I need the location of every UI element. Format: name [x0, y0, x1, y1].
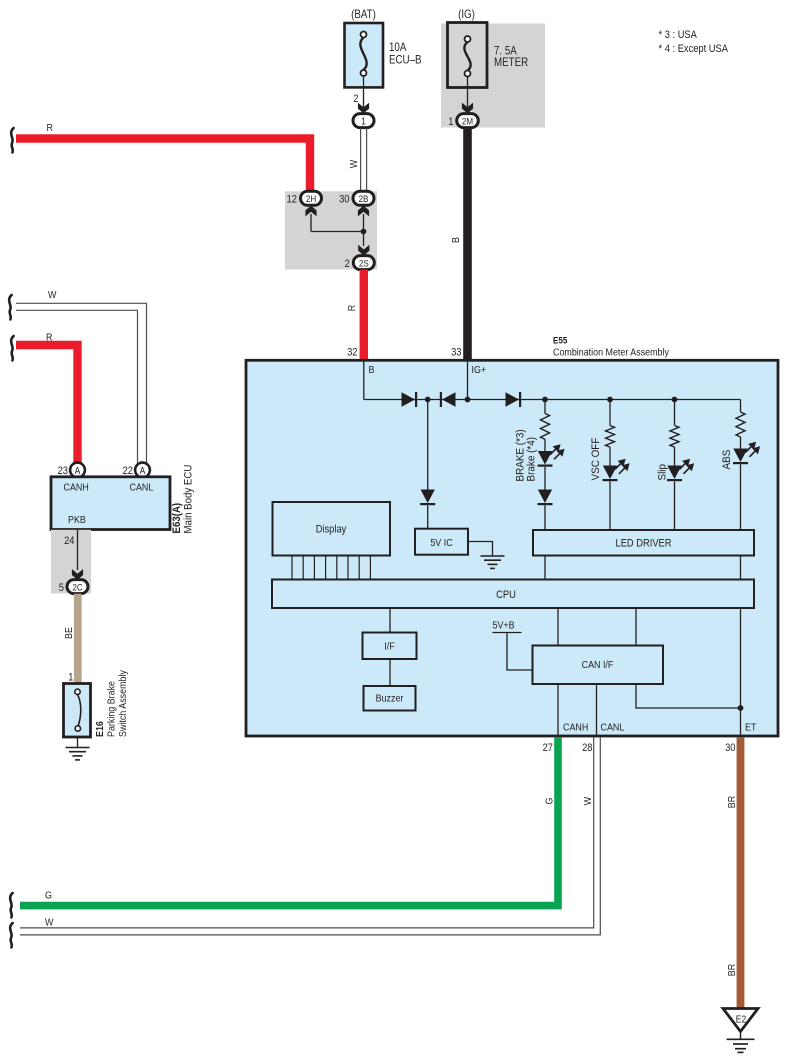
- svg-text:10A: 10A: [389, 41, 407, 54]
- svg-text:1: 1: [361, 116, 366, 128]
- wire: [674, 447, 676, 466]
- svg-text:IG+: IG+: [472, 364, 487, 376]
- junction dot: [672, 397, 678, 403]
- svg-text:27: 27: [543, 742, 554, 754]
- svg-text:W: W: [45, 917, 54, 929]
- svg-text:(IG): (IG): [458, 8, 475, 21]
- ground bars: [727, 1038, 755, 1040]
- wire PKB down: [77, 530, 79, 570]
- svg-text:METER: METER: [494, 56, 528, 69]
- switch blade: [78, 695, 81, 726]
- svg-text:28: 28: [582, 742, 593, 754]
- wire: [674, 400, 676, 426]
- junction dot IG+: [465, 397, 471, 403]
- wire: [609, 400, 611, 426]
- wire 5V+B to CAN I/F: [507, 633, 533, 671]
- svg-text:30: 30: [725, 742, 736, 754]
- node IG+ entry: [467, 360, 469, 399]
- svg-text:2M: 2M: [462, 116, 473, 127]
- junction dot ET: [738, 705, 744, 711]
- svg-text:12: 12: [287, 194, 298, 206]
- break squiggle: [9, 295, 11, 319]
- svg-text:2H: 2H: [306, 193, 316, 204]
- fuse 10A ECU-B box: [345, 23, 384, 87]
- arrow up into 2B: [358, 206, 369, 217]
- E55 box: [246, 360, 778, 736]
- junction dot: [361, 229, 367, 235]
- terminal A pin 23: [70, 463, 85, 478]
- svg-text:G: G: [45, 890, 52, 902]
- wire CANH: [557, 684, 559, 736]
- I/F box: [363, 633, 417, 660]
- svg-text:2S: 2S: [359, 258, 369, 269]
- svg-text:I/F: I/F: [384, 641, 394, 653]
- switch contact top: [75, 689, 80, 694]
- junction dot: [607, 397, 613, 403]
- LED Slip: [667, 459, 694, 480]
- wire: [427, 505, 429, 529]
- svg-text:Combination Meter Assembly: Combination Meter Assembly: [553, 347, 669, 359]
- wire: [544, 467, 546, 490]
- svg-text:1: 1: [448, 116, 453, 128]
- diode D1: [402, 392, 417, 407]
- svg-text:24: 24: [64, 535, 75, 547]
- svg-text:Brake (*4): Brake (*4): [526, 437, 538, 482]
- wire to 2S: [363, 232, 365, 247]
- wire BE: [74, 594, 82, 684]
- ground stem: [740, 1032, 742, 1040]
- svg-text:B: B: [450, 237, 462, 243]
- svg-text:Switch Assembly: Switch Assembly: [117, 670, 129, 737]
- wire: [740, 464, 742, 530]
- svg-text:B: B: [369, 364, 375, 376]
- display bus wires: [291, 556, 293, 580]
- LED VSC OFF: [603, 459, 630, 480]
- diode D4: [538, 490, 553, 505]
- gray junction block: [285, 191, 377, 269]
- CAN I/F box: [533, 646, 664, 685]
- junction dot: [425, 397, 431, 403]
- wire G: [20, 737, 558, 906]
- svg-text:A: A: [140, 465, 146, 476]
- svg-text:A: A: [75, 465, 81, 476]
- wire R: [16, 345, 78, 463]
- svg-text:R: R: [47, 122, 53, 134]
- junction dot: [542, 397, 548, 403]
- wire W (double line): [360, 128, 362, 192]
- svg-text:* 3 : USA: * 3 : USA: [659, 29, 698, 41]
- fuse element: [360, 38, 366, 71]
- svg-text:ECU–B: ECU–B: [389, 54, 422, 67]
- svg-text:Parking Brake: Parking Brake: [106, 681, 118, 737]
- wire from rail: [427, 400, 429, 490]
- connector 2H: [301, 191, 322, 205]
- svg-text:G: G: [544, 798, 556, 805]
- svg-text:BE: BE: [63, 627, 75, 639]
- wire B thick black: [463, 128, 472, 360]
- wire: [544, 505, 546, 530]
- LED BRAKE: [538, 444, 565, 465]
- svg-text:VSC OFF: VSC OFF: [591, 438, 603, 481]
- wire: [740, 437, 742, 449]
- Buzzer box: [364, 686, 416, 711]
- E16 box: [64, 684, 91, 738]
- svg-text:E2: E2: [736, 1014, 746, 1025]
- arrow into 2C: [72, 569, 83, 580]
- break squiggle: [10, 893, 12, 917]
- resistor R1: [541, 413, 550, 439]
- CPU box: [272, 580, 754, 609]
- ground E2 triangle: [723, 1009, 758, 1032]
- diode D3: [506, 392, 521, 407]
- wire to ground: [468, 542, 493, 556]
- svg-text:W: W: [48, 289, 57, 301]
- connector 1: [353, 114, 374, 128]
- svg-text:Buzzer: Buzzer: [376, 693, 404, 705]
- svg-text:W: W: [582, 796, 594, 805]
- svg-text:CANL: CANL: [601, 722, 625, 734]
- wire LED DRIVER to CPU right: [740, 556, 742, 580]
- svg-text:BR: BR: [726, 964, 738, 976]
- svg-text:BRAKE (*3): BRAKE (*3): [515, 429, 527, 481]
- svg-text:CANH: CANH: [64, 482, 89, 494]
- svg-text:CPU: CPU: [496, 589, 516, 601]
- svg-text:2C: 2C: [72, 582, 83, 593]
- arrow into connector 2M: [462, 103, 473, 114]
- supply rail wire: [364, 399, 741, 401]
- gray block: [441, 24, 545, 128]
- svg-text:W: W: [348, 159, 360, 168]
- wire: [609, 481, 611, 530]
- node B entry: [363, 360, 365, 399]
- 5V IC box: [415, 529, 468, 555]
- wire BR: [737, 737, 745, 1009]
- connector 2S: [353, 256, 374, 270]
- resistor R2: [606, 426, 615, 448]
- wire corner: [740, 400, 742, 413]
- terminal A pin 22: [135, 463, 150, 478]
- svg-text:Main Body ECU: Main Body ECU: [183, 465, 195, 534]
- wire to ground: [77, 737, 79, 748]
- wire: [544, 400, 546, 414]
- wire CANL: [596, 684, 598, 736]
- svg-text:ET: ET: [745, 722, 756, 734]
- svg-text:* 4 : Except USA: * 4 : Except USA: [659, 43, 729, 55]
- connector 2M: [457, 114, 479, 128]
- break squiggle: [11, 128, 13, 152]
- wire CPU to CAN I/F left: [557, 608, 559, 646]
- break squiggle: [10, 923, 12, 947]
- wire R: [16, 139, 310, 192]
- svg-text:32: 32: [347, 347, 358, 359]
- E63 box: [51, 477, 170, 530]
- LED DRIVER box: [533, 530, 754, 556]
- wire fuse to connector 1: [363, 76, 365, 107]
- switch contact bottom: [75, 726, 80, 731]
- svg-text:Display: Display: [316, 524, 347, 536]
- svg-text:2B: 2B: [359, 193, 369, 204]
- resistor R4: [736, 412, 745, 437]
- svg-text:ABS: ABS: [722, 450, 734, 470]
- gray block: [51, 530, 91, 594]
- arrow up into 2H: [305, 206, 316, 217]
- svg-text:E16: E16: [94, 721, 106, 737]
- wire CPU to I/F: [389, 608, 391, 633]
- wire CAN I/F to ET: [636, 684, 741, 708]
- break squiggle: [11, 336, 13, 360]
- fuse 7.5A METER box: [448, 23, 488, 88]
- svg-text:5V+B: 5V+B: [493, 620, 515, 632]
- svg-text:(BAT): (BAT): [351, 8, 376, 21]
- wire: [674, 481, 676, 530]
- wire 2H down: [310, 214, 312, 232]
- wire: [544, 439, 546, 451]
- connector 2B: [353, 191, 374, 205]
- connector 2C: [67, 580, 88, 594]
- ground: [66, 748, 90, 760]
- wire I/F to Buzzer: [389, 659, 391, 686]
- wire 2B down: [363, 214, 365, 232]
- svg-text:2: 2: [345, 258, 350, 270]
- svg-text:CANL: CANL: [130, 482, 154, 494]
- wire: [609, 447, 611, 466]
- wire ET: [740, 608, 742, 736]
- svg-text:Slip: Slip: [657, 464, 669, 481]
- svg-text:BR: BR: [726, 796, 738, 808]
- wire CPU to CAN I/F right: [635, 608, 637, 646]
- ground: [481, 556, 505, 568]
- wire W (double line): [20, 737, 594, 928]
- arrow down into 2S: [358, 245, 369, 256]
- svg-text:R: R: [346, 305, 358, 311]
- svg-text:1: 1: [68, 672, 73, 684]
- svg-text:30: 30: [339, 194, 350, 206]
- arrow into connector 1: [358, 103, 369, 114]
- wire joining: [311, 231, 364, 233]
- wire fuse to connector 2M: [467, 77, 469, 108]
- svg-text:E55: E55: [553, 335, 567, 346]
- Display box: [273, 502, 391, 556]
- diode D2: [441, 392, 456, 407]
- svg-text:E63(A): E63(A): [172, 503, 184, 534]
- 5V+B bar: [493, 632, 522, 634]
- svg-text:5V IC: 5V IC: [430, 537, 452, 549]
- svg-text:5: 5: [59, 582, 64, 594]
- LED ABS: [733, 442, 760, 463]
- wire LED DRIVER to CPU left: [544, 556, 546, 580]
- wire W (double line): [16, 303, 147, 462]
- wire R: [360, 270, 368, 360]
- svg-text:33: 33: [451, 347, 462, 359]
- resistor R3: [670, 426, 679, 448]
- svg-text:CAN I/F: CAN I/F: [582, 659, 614, 671]
- svg-text:PKB: PKB: [68, 514, 86, 526]
- svg-text:CANH: CANH: [563, 722, 588, 734]
- svg-text:LED DRIVER: LED DRIVER: [616, 538, 672, 550]
- fuse element: [464, 42, 470, 71]
- diode D5: [420, 490, 435, 505]
